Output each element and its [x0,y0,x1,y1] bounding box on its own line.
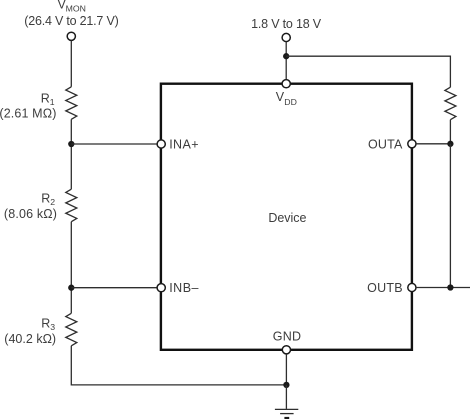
node OUTB junction [447,284,453,290]
svg-text:(26.4 V to 21.7 V): (26.4 V to 21.7 V) [24,14,119,28]
pin GND [282,346,290,354]
pin VDD [282,80,290,88]
svg-text:DD: DD [284,97,297,107]
svg-text:R: R [41,92,50,106]
pin OUTB [408,283,416,291]
wire R1 to R2 [70,119,72,189]
terminal supply [282,33,290,41]
wire R3 to bottom rail [71,346,286,385]
svg-text:INA+: INA+ [169,137,198,151]
wire VMON to R1 [70,41,72,87]
svg-text:R: R [41,192,50,206]
svg-text:(8.06 kΩ): (8.06 kΩ) [4,207,57,221]
resistor R3 [66,313,77,346]
label VMON [24,0,119,28]
svg-text:(40.2 kΩ): (40.2 kΩ) [4,332,56,346]
wire OUTA node to OUTB node [449,144,451,288]
wire pull-up to OUTA node [449,120,451,144]
node junction INB- [68,285,74,291]
resistor R2 [66,189,77,221]
wire OUTA to node [416,143,450,145]
svg-text:(2.61 MΩ): (2.61 MΩ) [0,106,56,120]
resistor R4 pull-up [445,87,456,119]
svg-text:OUTA: OUTA [368,137,403,151]
node OUTA junction [447,141,453,147]
pin INA+ [157,140,165,148]
svg-text:OUTB: OUTB [367,281,403,295]
pin INB- [157,284,165,292]
wire supply to VDD [285,42,287,80]
terminal VMON [67,32,75,40]
resistor R1 [66,87,77,119]
node supply junction [283,53,289,59]
pin OUTA [408,140,416,148]
svg-text:GND: GND [273,330,301,344]
wire OUTB to right edge [416,287,470,289]
svg-text:MON: MON [66,3,86,13]
wire junction to INA+ [71,143,157,145]
wire junction to INB- [71,287,157,289]
node ground junction [283,382,289,388]
wire R2 to R3 [70,222,72,314]
device U1 [161,84,412,350]
svg-text:1.8 V to 18 V: 1.8 V to 18 V [251,17,322,31]
svg-text:INB–: INB– [169,281,198,295]
wire GND to ground [285,354,287,385]
svg-text:3: 3 [50,322,55,332]
node junction INA+ [68,141,74,147]
svg-text:R: R [41,317,50,331]
wire supply junction to pull-up [286,56,450,87]
svg-text:Device: Device [268,211,306,225]
ground [275,385,298,418]
svg-text:2: 2 [50,197,55,207]
